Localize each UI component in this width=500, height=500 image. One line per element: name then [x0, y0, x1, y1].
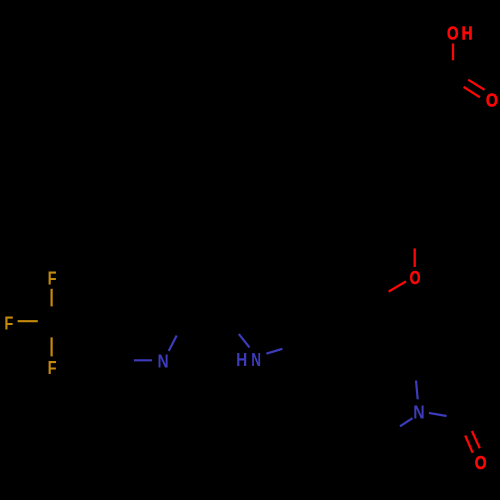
svg-text:O: O: [486, 89, 498, 111]
atom H-N label of indoline: [236, 348, 261, 370]
svg-text:F: F: [48, 357, 57, 378]
bond N-C2 (blue half): [239, 334, 250, 347]
svg-text:O: O: [447, 23, 459, 44]
bond CH2-O (red half): [414, 248, 416, 267]
bond O-aryl (red half): [389, 281, 406, 291]
bond N-C (blue half, down-left): [400, 418, 413, 426]
svg-text:F: F: [48, 268, 57, 289]
svg-text:H: H: [461, 22, 472, 44]
svg-text:H: H: [236, 348, 247, 370]
wire: aryl ring of indoline: [292, 278, 371, 368]
wire: CF3 to pyridine: [51, 320, 95, 322]
bond C=O double line 2 (red half): [464, 87, 480, 97]
atom O-H label of COOH: [447, 22, 473, 44]
svg-text:N: N: [157, 350, 168, 372]
wire: acid C to CH2 chain: [376, 71, 453, 228]
bond C=O double line 2 (red half): [472, 431, 480, 448]
bond C-F top (gold half): [50, 289, 52, 307]
svg-text:O: O: [410, 267, 421, 289]
bond N-C (blue half, up): [416, 381, 418, 400]
bond N-C6 (blue half): [134, 359, 152, 361]
bond O-C of COOH (red half): [452, 44, 454, 61]
bond N-C7a (blue half): [266, 349, 282, 354]
bond C-F left (gold half): [18, 320, 38, 322]
bond C=O double line 1 (red half): [465, 436, 473, 453]
wire: acetyl: [463, 384, 490, 462]
bond N-C acyl (blue half, right): [429, 413, 447, 416]
carbon skeleton (black, invisible on black background): [51, 71, 490, 462]
wire: pyridine ring: [95, 282, 228, 360]
svg-text:F: F: [4, 313, 13, 334]
svg-text:N: N: [413, 401, 424, 423]
bond N-C2 (blue half): [169, 336, 177, 352]
wire: indoline five-ring: [228, 301, 292, 359]
wire: piperidine ring: [292, 275, 419, 436]
bond C=O double line 1 (red half): [468, 80, 484, 90]
svg-text:O: O: [475, 453, 487, 474]
svg-text:N: N: [251, 350, 261, 371]
bond C-F bottom (gold half): [50, 337, 52, 356]
